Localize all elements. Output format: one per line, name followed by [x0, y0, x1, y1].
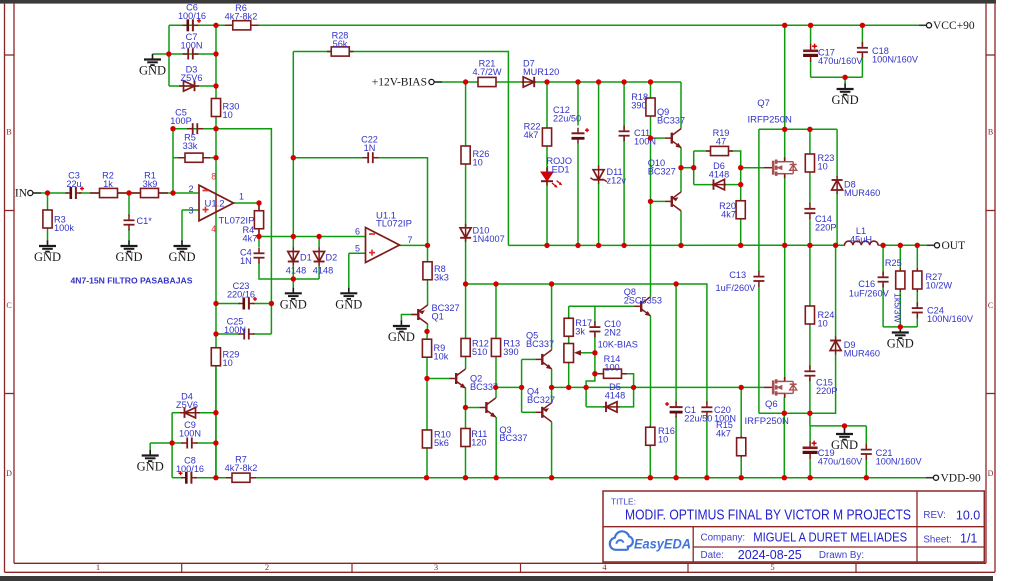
svg-text:REV:: REV:: [923, 510, 946, 521]
label U1.1 ref: [376, 211, 412, 230]
ground pin3: [174, 241, 191, 252]
svg-text:D2: D2: [326, 253, 338, 263]
capacitor C1: [665, 402, 683, 418]
wire R23 to C14: [809, 172, 811, 204]
capacitor C15: [804, 366, 815, 382]
svg-text:BC337: BC337: [499, 433, 527, 443]
label C22: [361, 135, 378, 153]
label C18: [872, 46, 919, 64]
wire Q2 emitter to Q3 base: [465, 388, 467, 429]
wire pin1 out: [233, 202, 259, 204]
wire Q7 source to Q6 drain: [784, 178, 786, 377]
svg-text:4: 4: [211, 224, 216, 234]
svg-text:BC337: BC337: [526, 339, 554, 349]
svg-text:1/1: 1/1: [960, 532, 977, 546]
wire pin3 to GND: [181, 210, 183, 242]
capacitor C3: [66, 187, 85, 200]
wire C25 right lead: [253, 333, 271, 335]
label R16: [658, 426, 675, 444]
svg-text:Q6: Q6: [765, 399, 778, 410]
svg-text:GND: GND: [115, 250, 142, 264]
svg-text:10.0: 10.0: [956, 509, 980, 523]
wire Q4 base row: [522, 411, 536, 413]
wire C12 top lead: [577, 82, 579, 126]
mosfet Q6 IRFP250N: [764, 377, 797, 398]
svg-text:GND: GND: [335, 297, 362, 311]
wire R19 D6 right vertical: [729, 151, 741, 185]
label C24: [927, 306, 974, 324]
label R23: [818, 153, 835, 171]
svg-text:10: 10: [818, 161, 828, 171]
svg-text:100/16: 100/16: [178, 11, 206, 21]
svg-text:3k9: 3k9: [143, 179, 158, 189]
svg-text:3: 3: [434, 562, 438, 572]
svg-text:4148: 4148: [709, 169, 729, 179]
wire Q1 base to GND: [401, 315, 418, 323]
label C6: [178, 3, 206, 21]
wire R15 to rail: [740, 458, 742, 478]
label Q10: [648, 158, 676, 176]
label R18: [631, 92, 648, 110]
label Q4: [527, 387, 555, 405]
wire C7 row: [169, 53, 216, 55]
svg-text:VCC+90: VCC+90: [933, 20, 975, 32]
wire C8 right lead: [195, 477, 216, 479]
svg-text:MUR460: MUR460: [844, 188, 880, 198]
resistor R3: [43, 209, 52, 229]
svg-text:TITLE:: TITLE:: [611, 497, 636, 507]
resistor R12: [461, 338, 470, 356]
wire C1 top vertical: [675, 284, 677, 403]
capacitor C17: [803, 44, 818, 62]
diode D2: [314, 248, 325, 266]
wire node to R10: [426, 379, 428, 430]
wire R17 top lead: [568, 306, 570, 317]
wire D11 top lead: [598, 82, 600, 167]
wire R20 top lead: [740, 185, 742, 201]
svg-text:IRFP250N: IRFP250N: [748, 115, 792, 126]
wire Q3 base row: [466, 407, 480, 409]
label C4: [240, 248, 252, 266]
wire Q5 emitter Q4 emitter: [551, 369, 553, 403]
wire Q8 collector vertical: [650, 201, 652, 296]
wire R28 right to bias row: [349, 52, 509, 246]
inductor L1: [845, 241, 879, 245]
wire R13 top lead: [495, 284, 497, 339]
svg-text:GND: GND: [831, 438, 858, 452]
wire Q5 base row: [522, 358, 536, 360]
wire D3 row: [169, 85, 216, 87]
wire pin6 vertical x293: [292, 52, 294, 237]
wire Q6 source to VDD rail: [783, 413, 785, 477]
wire R14 jog to D5 left: [586, 374, 595, 407]
wire pot to main row: [568, 362, 570, 387]
wire D4 right lead: [199, 412, 216, 414]
label Q8: [624, 287, 662, 305]
wire VCC down to Q7 drain: [784, 25, 786, 129]
resistor R6: [225, 21, 259, 30]
wire R10 to rail: [426, 448, 428, 478]
wire C19 bottom lead: [809, 459, 811, 478]
terminal stub VDD: [926, 477, 933, 479]
svg-text:C1*: C1*: [137, 216, 153, 226]
wire VCC caps gnd row: [811, 76, 863, 78]
svg-text:100N: 100N: [224, 325, 246, 335]
wire C9 left lead: [172, 442, 183, 444]
transistor Q8 2SC5353: [634, 297, 651, 317]
wire D6 right lead: [725, 184, 741, 186]
wire C4 top lead: [258, 237, 260, 248]
wire C13 bottom vertical: [758, 287, 760, 414]
capacitor C4: [254, 248, 265, 264]
wire C14 to OUT rail: [809, 218, 811, 245]
wire Q8 emitter to R16: [650, 316, 652, 426]
svg-text:4k7-8k2: 4k7-8k2: [225, 11, 258, 21]
wire C17 top lead: [810, 25, 812, 44]
wire R28 left: [293, 51, 332, 53]
svg-text:R25: R25: [885, 258, 902, 268]
svg-text:z12v: z12v: [607, 175, 627, 185]
EasyEDA logo: [610, 531, 691, 551]
terminal stub +12V: [434, 81, 442, 83]
svg-text:1uF/260V: 1uF/260V: [716, 283, 757, 293]
label C5: [170, 108, 191, 126]
label C13: [716, 270, 757, 293]
wire pin6 row: [259, 236, 366, 238]
svg-text:+12V-BIAS: +12V-BIAS: [372, 77, 427, 89]
diode D7: [522, 77, 536, 87]
label R28: [332, 31, 349, 49]
wire pin2 left vertical: [172, 129, 174, 193]
terminal +12V-BIAS: [429, 79, 434, 84]
svg-text:10K-BIAS: 10K-BIAS: [598, 339, 638, 349]
zener diode D3: [179, 81, 199, 91]
label R27: [926, 272, 953, 290]
svg-text:100P: 100P: [170, 116, 191, 126]
wire zobel gnd row: [883, 326, 917, 328]
resistor R19: [706, 146, 733, 155]
svg-text:B: B: [6, 128, 11, 137]
label Q9: [657, 107, 685, 125]
svg-text:22u/50: 22u/50: [553, 113, 581, 123]
wire R21 to D7: [496, 81, 525, 83]
resistor R10: [422, 430, 431, 448]
svg-text:10: 10: [818, 318, 828, 328]
label Q3: [499, 425, 527, 443]
wire R23 top lead: [809, 129, 811, 154]
svg-text:220P: 220P: [816, 386, 837, 396]
svg-text:220/16: 220/16: [227, 289, 255, 299]
svg-text:Drawn By:: Drawn By:: [819, 550, 864, 561]
capacitor C10: [589, 321, 600, 337]
zener diode D11: [590, 166, 606, 184]
wire GND stub bottom left: [149, 443, 151, 452]
label D6: [709, 161, 729, 179]
wire OUT rail left part: [741, 244, 845, 246]
title block frame: [603, 491, 984, 562]
svg-text:10k: 10k: [434, 351, 449, 361]
diode D8: [832, 176, 843, 194]
label D10: [473, 226, 505, 244]
transistor Q3 BC337: [479, 398, 496, 418]
svg-text:47: 47: [716, 136, 726, 146]
wire R8 to Q1 emitter: [427, 280, 429, 306]
label L1: [850, 226, 872, 244]
wire Q3 coll to bases: [496, 386, 522, 388]
svg-text:4k7: 4k7: [716, 428, 731, 438]
svg-text:1N4007: 1N4007: [473, 234, 505, 244]
wire R25 bottom lead: [899, 292, 901, 327]
ground Q1 base: [393, 321, 410, 332]
resistor R26: [461, 146, 470, 164]
svg-text:GND: GND: [168, 250, 195, 264]
svg-text:100N: 100N: [181, 40, 203, 50]
svg-text:GND: GND: [832, 93, 859, 107]
capacitor C1*: [124, 215, 135, 231]
wire Q6 source lead: [783, 398, 785, 414]
diode D9: [830, 337, 841, 355]
transistor Q2 BC337: [449, 369, 466, 389]
resistor R28: [327, 47, 354, 56]
wire R12 top lead: [465, 284, 467, 339]
resistor R30: [211, 98, 220, 117]
capacitor C9: [182, 438, 198, 449]
svg-text:IN: IN: [15, 188, 28, 200]
svg-text:MIGUEL A DURET MELIADES: MIGUEL A DURET MELIADES: [753, 531, 907, 545]
resistor R13: [491, 338, 500, 356]
label C3: [66, 171, 81, 189]
svg-text:3: 3: [188, 206, 193, 216]
wire +12V to R21: [432, 81, 479, 83]
wire zobel gnd stub: [899, 327, 901, 329]
capacitor C13: [753, 271, 764, 287]
resistor R22: [542, 128, 551, 146]
svg-text:MUR460: MUR460: [844, 348, 880, 358]
wire pin5 to GND: [348, 253, 350, 289]
wire D2 bottom lead: [318, 265, 320, 279]
label R17: [575, 318, 592, 336]
svg-text:56k: 56k: [333, 39, 348, 49]
label C16: [849, 279, 890, 299]
capacitor C23: [239, 297, 258, 310]
capacitor C24: [912, 302, 923, 318]
wire C22 left: [293, 157, 363, 159]
terminal IN: [28, 190, 33, 195]
resistor R14: [598, 369, 627, 378]
wire D1 bottom lead: [292, 265, 294, 279]
svg-text:4148: 4148: [605, 390, 625, 400]
wire C21 bottom lead: [865, 456, 867, 478]
wire gate node to R19 D6 left: [681, 167, 694, 169]
svg-text:390: 390: [631, 100, 646, 110]
diode D6: [712, 179, 726, 189]
svg-text:2SC5353: 2SC5353: [624, 295, 662, 305]
bottom scale band: [182, 563, 856, 572]
label LED1: [547, 156, 573, 174]
svg-text:U1.2: U1.2: [205, 199, 225, 210]
wire Q5 collector vertical: [551, 284, 553, 350]
capacitor C7: [183, 49, 199, 60]
wire Q10 collector to bias row: [680, 211, 682, 246]
svg-text:4k7: 4k7: [524, 130, 539, 140]
svg-text:TL072IP: TL072IP: [376, 219, 412, 230]
svg-text:Q1: Q1: [432, 311, 444, 321]
wire D4 left lead: [172, 412, 181, 414]
wire C18 top lead: [861, 25, 863, 45]
wire Q7 drain lead: [784, 129, 786, 158]
wire R17 to pot: [568, 338, 570, 345]
capacitor C25: [239, 329, 255, 340]
svg-text:2: 2: [265, 562, 269, 572]
wire C12 bottom lead: [577, 144, 579, 246]
wire R18 top lead: [650, 82, 652, 99]
svg-text:Q7: Q7: [757, 98, 770, 109]
label R11: [471, 429, 487, 447]
wire row284 to C20: [466, 284, 707, 403]
wire D4 block left vertical: [171, 413, 173, 478]
wire R27 to C24: [916, 292, 918, 306]
resistor R2: [90, 188, 127, 197]
wire Q6 source row left: [759, 412, 784, 414]
wire C16 bottom lead: [882, 284, 884, 327]
wire R18 to Q9 base: [650, 116, 652, 139]
svg-text:Sheet:: Sheet:: [923, 535, 951, 546]
svg-text:4k7-8k2: 4k7-8k2: [225, 463, 258, 473]
label R20: [719, 201, 736, 219]
label C11: [634, 128, 656, 146]
wire R13 to Q3 collector node: [495, 356, 497, 398]
resistor R5: [178, 153, 210, 162]
ground zobel: [892, 327, 909, 338]
capacitor C12: [572, 128, 590, 144]
op-amp U1.2: [199, 185, 254, 226]
wire R19 D6 left vertical: [693, 151, 695, 185]
wire Q9 Q10 emitters vertical: [680, 148, 682, 192]
svg-text:C: C: [6, 301, 11, 310]
label R15: [716, 420, 733, 438]
svg-text:VDD-90: VDD-90: [941, 473, 981, 485]
wire x216 low chain: [215, 304, 217, 478]
transistor Q1 BC327: [411, 305, 427, 324]
resistor R23: [805, 154, 814, 172]
label D3: [181, 65, 203, 83]
label R22: [524, 122, 541, 140]
svg-text:D: D: [6, 469, 12, 478]
wire C11 bottom lead: [623, 137, 625, 245]
label R30: [223, 102, 240, 120]
label R1: [143, 171, 158, 189]
wire x216 mid chain: [215, 117, 217, 304]
ground top left: [144, 54, 161, 65]
wire Q4 Q5 bases vertical: [521, 359, 523, 412]
svg-text:MUR120: MUR120: [523, 67, 559, 77]
wire Q9 collector vertical: [680, 82, 682, 129]
svg-text:470u/160V: 470u/160V: [818, 56, 863, 66]
svg-text:22u/50: 22u/50: [684, 413, 712, 423]
wire Q6 gate row: [741, 386, 763, 388]
ground bottom left: [142, 450, 159, 461]
svg-text:EasyEDA: EasyEDA: [634, 536, 691, 552]
wire C22 right to pin7: [378, 158, 428, 246]
wire R25 top lead: [899, 245, 901, 268]
svg-text:B: B: [988, 128, 993, 137]
label R9: [434, 343, 449, 361]
wire C19 top lead: [809, 426, 811, 441]
svg-text:Z5V6: Z5V6: [181, 73, 203, 83]
terminal OUT: [934, 243, 939, 248]
transistor Q4 BC327: [535, 403, 551, 422]
wire GND stub supply: [844, 426, 846, 430]
label C23: [227, 281, 255, 299]
op-amp U1.1: [366, 228, 400, 263]
wire C10 top lead: [594, 306, 596, 325]
svg-text:6: 6: [355, 227, 360, 237]
svg-text:100: 100: [604, 362, 619, 372]
wire C19 C21 top row: [810, 425, 866, 427]
resistor R11: [461, 429, 470, 447]
wire C1 to GND: [128, 229, 130, 242]
svg-text:LED1: LED1: [547, 164, 570, 174]
wire Q4 collector to rail: [551, 422, 553, 478]
transistor Q9 BC337: [665, 129, 682, 149]
capacitor C21: [861, 444, 872, 460]
svg-text:1k5/3W: 1k5/3W: [893, 293, 903, 324]
wire pin3 row: [182, 209, 199, 211]
wire R9 to node: [426, 357, 428, 379]
wire R3 to GND: [47, 229, 49, 242]
wire R22 to LED: [546, 146, 548, 173]
resistor R9: [422, 339, 431, 357]
wire GND tap to C7 row: [153, 53, 170, 55]
label R19: [713, 128, 730, 146]
wire Q10 base row: [651, 200, 665, 202]
svg-text:1N: 1N: [240, 256, 252, 266]
svg-text:GND: GND: [388, 330, 415, 344]
svg-text:100/16: 100/16: [176, 464, 204, 474]
svg-text:100N/160V: 100N/160V: [927, 314, 974, 324]
bottom dark strip: [0, 576, 993, 581]
wire C5 row: [173, 128, 216, 130]
diode D5: [604, 402, 620, 412]
svg-text:1: 1: [239, 192, 244, 202]
U1.2 power pin line: [215, 194, 217, 213]
svg-text:8: 8: [211, 172, 216, 182]
svg-text:100N/160V: 100N/160V: [876, 456, 923, 466]
label R7: [225, 455, 258, 473]
label R8: [434, 264, 449, 282]
wire D8 top lead: [836, 129, 838, 176]
potentiometer 10K-BIAS: [564, 344, 574, 363]
svg-text:D: D: [988, 469, 994, 478]
wire D7 to bias top row: [533, 81, 681, 83]
svg-text:D1: D1: [300, 253, 312, 263]
wire D9 to Q6 source row: [784, 354, 835, 413]
wire D5 left lead: [586, 406, 604, 408]
ground R3: [39, 241, 56, 252]
label C9: [179, 420, 201, 438]
resistor R15: [737, 436, 746, 458]
svg-text:BC337: BC337: [657, 115, 685, 125]
wire OUT rail right part: [878, 244, 937, 246]
terminal stub VCC: [919, 24, 926, 26]
label R14: [604, 354, 621, 372]
svg-text:2024-08-25: 2024-08-25: [738, 548, 802, 562]
resistor R18: [646, 98, 655, 116]
wire C24 bottom lead: [916, 315, 918, 327]
svg-text:Z5V6: Z5V6: [176, 400, 198, 410]
svg-text:10: 10: [473, 157, 483, 167]
label C1: [684, 405, 712, 423]
